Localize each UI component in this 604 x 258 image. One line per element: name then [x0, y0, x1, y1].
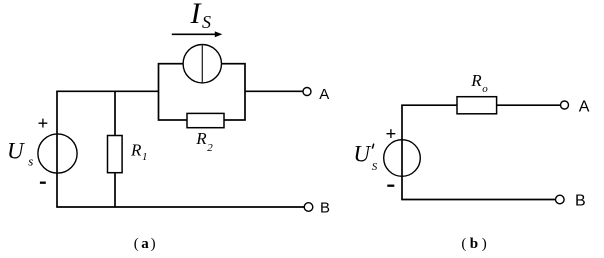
svg-text:(: (	[134, 236, 139, 252]
wire bottom of circuit (b)	[401, 199, 555, 201]
svg-text:B: B	[575, 193, 586, 210]
wire from Ro to terminal A	[497, 104, 561, 106]
svg-text:U: U	[353, 142, 371, 167]
voltage source Us'	[384, 140, 421, 177]
svg-text:): )	[151, 236, 156, 252]
label Ro	[470, 71, 488, 95]
current source Is	[183, 45, 221, 83]
svg-text:B: B	[320, 199, 330, 216]
svg-text:R: R	[195, 129, 207, 148]
wire branch of R1	[114, 91, 116, 207]
node A terminal of circuit (a)	[303, 88, 311, 96]
resistor R1	[108, 136, 123, 173]
svg-text:(: (	[461, 236, 466, 252]
resistor Ro	[457, 97, 497, 114]
wire parallel loop of Is and R2	[159, 64, 246, 120]
svg-text:I: I	[190, 0, 203, 30]
node B terminal of circuit (a)	[304, 203, 313, 212]
svg-text:R: R	[130, 141, 142, 160]
svg-text:R: R	[470, 71, 482, 90]
polarity - of Us'	[387, 185, 394, 187]
wire bottom of circuit (a)	[56, 206, 304, 208]
svg-text:b: b	[470, 236, 478, 252]
polarity - of Us	[40, 182, 46, 184]
svg-text:S: S	[202, 12, 211, 32]
svg-text:a: a	[141, 236, 149, 252]
svg-text:): )	[482, 236, 487, 252]
svg-text:A: A	[579, 99, 590, 116]
label Us	[7, 138, 33, 168]
wire left rail of circuit (a)	[56, 91, 58, 207]
svg-text:+: +	[386, 124, 397, 145]
wire from loop to terminal A	[245, 90, 303, 92]
node A terminal of circuit (b)	[561, 101, 569, 109]
wire top from Us to node of R1 and loop	[56, 90, 158, 92]
svg-text:1: 1	[142, 151, 148, 163]
node B terminal of circuit (b)	[556, 195, 565, 204]
voltage source Us	[38, 134, 77, 173]
svg-text:S: S	[372, 161, 378, 173]
wire top from Us' to Ro	[401, 104, 457, 106]
svg-text:U: U	[7, 138, 25, 163]
svg-text:A: A	[319, 86, 329, 103]
svg-text:+: +	[38, 114, 49, 135]
svg-text:2: 2	[207, 142, 213, 154]
svg-text:s: s	[28, 153, 33, 168]
label Is	[190, 0, 212, 32]
label R2	[195, 129, 213, 154]
label R1	[130, 141, 148, 163]
current direction arrow of Is	[172, 31, 223, 37]
label Us'	[353, 142, 377, 173]
resistor R2	[187, 113, 224, 127]
wire left rail of circuit (b)	[401, 105, 403, 199]
svg-text:o: o	[482, 83, 488, 95]
